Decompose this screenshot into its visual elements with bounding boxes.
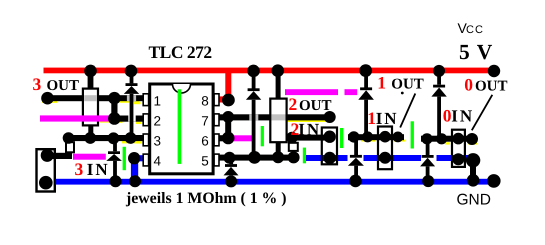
U1 pin numbers right 8 7 6 5	[201, 93, 209, 168]
resistor R2 1 MOhm	[270, 99, 286, 143]
label 1 OUT	[377, 73, 424, 93]
node pin7 dot	[222, 111, 234, 123]
wire pin7-pin6 vertical link	[225, 117, 231, 139]
U1 pin 3 box	[143, 134, 148, 146]
U1 pin 4 box	[143, 154, 148, 166]
node pin4 dot	[128, 152, 140, 164]
node pin5 dots	[224, 151, 300, 164]
svg-text:OUT: OUT	[475, 78, 508, 94]
diode D2 (VCC clamp, to pin5 net)	[246, 72, 261, 156]
wire W1 pin1	[44, 95, 143, 101]
stray mark	[401, 92, 404, 95]
svg-text:OUT: OUT	[391, 77, 424, 93]
node pin7 wire end dot	[324, 111, 336, 123]
label jeweils 1 MOhm ( 1 % )	[125, 190, 287, 207]
connector J3 pin dots	[379, 131, 391, 164]
U1 pin 7 box	[214, 114, 219, 126]
diode D4 (VCC clamp, to 0IN net)	[431, 72, 446, 137]
wire 2OUT magenta dashed	[285, 89, 357, 95]
svg-text:IN: IN	[376, 109, 399, 128]
diode D6 (GND clamp, pin5 net)	[224, 159, 239, 180]
svg-text:8: 8	[201, 93, 209, 108]
U1 pin 8 box	[214, 94, 219, 106]
node 1IN row dots	[348, 131, 403, 142]
connector J2 (2 IN header)	[322, 128, 337, 165]
svg-text:0: 0	[464, 74, 473, 94]
wire pin4 blue	[131, 155, 143, 181]
green probe marks	[123, 121, 414, 170]
diode D5 (GND clamp, pin3 net)	[106, 140, 122, 180]
wire upper-blue to GND vertical	[470, 160, 476, 179]
wire W5 pin5	[220, 155, 300, 161]
resistor R1 1 MOhm	[83, 89, 98, 126]
svg-text:IN: IN	[451, 106, 474, 125]
diode D7 (GND clamp, 1IN net)	[348, 139, 364, 179]
svg-text:6: 6	[201, 134, 209, 149]
svg-text:1: 1	[377, 73, 386, 93]
svg-text:2: 2	[154, 114, 162, 129]
svg-text:1: 1	[154, 93, 162, 108]
GND rail end terminal dot	[487, 174, 501, 188]
label 1 IN	[367, 108, 398, 128]
wire W1-W2 vertical link	[111, 98, 117, 119]
node box-B upper dot	[286, 132, 298, 144]
svg-text:GND: GND	[457, 192, 491, 209]
wire 1IN row	[348, 134, 404, 140]
label 2IN	[291, 119, 322, 139]
wire yellow ticks	[42, 100, 477, 144]
connector J4 pin dots	[452, 133, 464, 165]
svg-text:2: 2	[289, 94, 298, 114]
connector J1 (3 OUT / 3 IN header)	[37, 149, 55, 191]
svg-text:CC: CC	[466, 24, 484, 36]
wire 0IN row	[421, 136, 477, 142]
wire W7 pin7	[220, 114, 329, 120]
resistor R2 lead bottom	[276, 142, 281, 156]
label TLC 272	[149, 42, 212, 62]
diode D3 (VCC clamp, to 1IN net)	[358, 72, 374, 135]
wire W2 black pin2	[110, 116, 143, 122]
svg-text:3: 3	[33, 74, 42, 94]
connector J3 (1 IN header)	[378, 127, 392, 170]
svg-text:5: 5	[201, 154, 209, 169]
resistor R1 lead top	[88, 72, 94, 89]
label 5 V	[459, 40, 493, 64]
U1 pin 6 box	[214, 134, 219, 146]
label GND	[457, 192, 491, 209]
wire W3 pin3	[65, 135, 143, 141]
label 2 OUT	[289, 94, 332, 114]
svg-text:IN: IN	[87, 160, 110, 179]
svg-text:jeweils 1 MOhm ( 1 % ): jeweils 1 MOhm ( 1 % )	[125, 190, 287, 207]
VCC rail	[44, 68, 498, 74]
junction dots on GND rail	[110, 174, 480, 187]
svg-text:OUT: OUT	[299, 98, 332, 114]
wire pin6 stub	[220, 135, 231, 141]
connector J2 pin dots	[324, 131, 336, 165]
wire magenta 3IN	[73, 154, 106, 160]
component box A (3 IN series element)	[66, 138, 74, 156]
node 0IN row dots	[421, 133, 478, 145]
svg-text:3: 3	[75, 159, 84, 179]
svg-text:3: 3	[154, 134, 162, 149]
diode D8 (GND clamp, 0IN net)	[420, 141, 435, 179]
GND branch upper blue	[306, 155, 473, 161]
component box B (2 IN series element)	[289, 140, 298, 155]
wire box-B to connector C1	[289, 135, 331, 141]
VCC rail end terminal dot	[488, 65, 500, 77]
label VCC	[458, 20, 484, 36]
svg-text:7: 7	[201, 114, 209, 129]
U1 pin 2 box	[143, 114, 148, 126]
svg-text:4: 4	[154, 154, 162, 169]
svg-text:IN: IN	[298, 120, 321, 139]
probe slash at 0 IN	[472, 95, 493, 131]
U1 green center line	[178, 89, 182, 164]
svg-text:5 V: 5 V	[459, 40, 493, 64]
probe slash at 1 IN	[400, 94, 415, 128]
wire pin8 red	[220, 72, 232, 103]
node upper-blue to GND dot	[466, 153, 480, 167]
connector J1 pin dots	[39, 149, 54, 190]
diode D1 (VCC clamp, to pin3 net)	[124, 72, 139, 137]
resistor R1 lead bottom	[88, 125, 93, 137]
node pin6 dot	[222, 132, 235, 145]
resistor R2 lead top	[276, 72, 281, 99]
label 0 OUT	[464, 74, 507, 94]
label 3 IN	[75, 159, 110, 179]
node pin8 dot	[222, 94, 235, 107]
junction dots on VCC rail	[84, 64, 445, 77]
node W1 junction dot	[108, 92, 121, 105]
node W1 terminal dot	[41, 92, 54, 105]
U1 pin numbers left 1 2 3 4	[154, 93, 162, 168]
U1 pin 5 box	[214, 154, 219, 166]
wire pin6 magenta	[234, 135, 252, 141]
connector J4 (0 IN header)	[452, 130, 465, 167]
label 0 IN	[443, 105, 475, 125]
U1 pin 1 box	[143, 94, 148, 106]
node W3 junction dots	[63, 132, 137, 144]
GND rail	[54, 179, 497, 185]
node W2 junction dot	[108, 112, 121, 125]
wire connector-A to box-A	[46, 153, 72, 159]
wire W7 gray crossing	[249, 114, 258, 120]
wire W2 magenta pin2	[40, 115, 110, 121]
op-amp U1 TLC272 body	[150, 84, 213, 174]
svg-text:TLC 272: TLC 272	[149, 42, 212, 62]
label 3 OUT	[33, 74, 80, 94]
svg-text:OUT: OUT	[47, 78, 80, 94]
